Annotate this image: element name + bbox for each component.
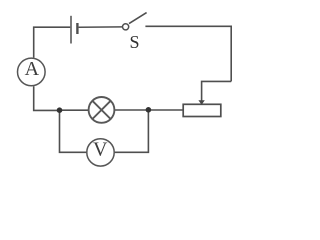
wire lamp to right node	[115, 109, 149, 111]
node right junction	[146, 107, 152, 113]
svg-text:V: V	[93, 139, 108, 161]
wire left node to lamp	[60, 109, 89, 111]
battery B1 short plate	[76, 23, 78, 34]
battery B1 long plate	[70, 16, 72, 44]
switch S lever arm	[129, 13, 147, 24]
svg-text:A: A	[25, 58, 40, 80]
wire voltmeter branch right	[115, 110, 149, 152]
svg-text:S: S	[129, 32, 139, 52]
rheostat slider arrowhead	[198, 100, 204, 105]
wire battery to switch	[79, 26, 123, 28]
wire voltmeter branch left	[60, 110, 87, 152]
ammeter A	[18, 58, 46, 86]
wire top-left vertical (ammeter to top rail)	[34, 27, 70, 57]
node left junction	[57, 107, 63, 113]
wire ammeter to bottom rail	[34, 86, 60, 110]
switch S pivot circle	[123, 24, 129, 30]
wire switch to top-right corner	[145, 26, 231, 81]
voltmeter V	[87, 139, 114, 167]
rheostat R1 body	[183, 104, 221, 116]
wire right node to rheostat	[148, 109, 183, 111]
lamp L1	[89, 97, 115, 123]
wire step to rheostat slider	[202, 81, 232, 100]
